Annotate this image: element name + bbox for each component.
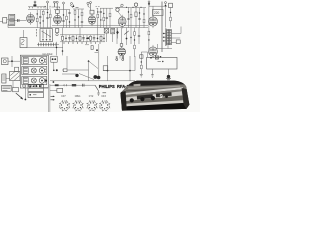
resistor R18 <box>148 27 150 48</box>
grid coil V3 <box>90 10 94 15</box>
scatter components below V3 <box>85 37 98 52</box>
photo right side panel <box>182 88 190 109</box>
tuning capacitor VC <box>10 67 20 80</box>
capacitor C6 column <box>78 9 79 28</box>
band switch element 8 <box>86 35 88 42</box>
capacitor C23 column <box>130 28 131 44</box>
wire pickup line <box>24 30 64 47</box>
photo front panel <box>121 89 185 107</box>
svg-text:CBL1: CBL1 <box>75 96 81 98</box>
band switch element 1 <box>62 35 64 42</box>
terminal gramophone <box>70 3 79 8</box>
capacitor C34 blob <box>97 76 101 80</box>
capacitor C20 <box>127 7 129 27</box>
tube V5 AZ1 envelope <box>149 15 158 28</box>
photo dial window right <box>156 92 172 97</box>
svg-text:220: 220 <box>154 11 160 15</box>
resistor R9 column <box>109 8 111 27</box>
wave switch comb <box>37 43 59 46</box>
tube V2 ECH4 envelope <box>54 13 62 25</box>
photo left corner midtone <box>120 86 134 94</box>
filter block right of mains line <box>51 56 57 62</box>
variable resistor R15 <box>124 28 128 45</box>
wire T2 primary stubs <box>163 33 166 42</box>
wire diagonal <box>79 74 94 80</box>
capacitor blob right <box>167 75 170 78</box>
wire box stub right <box>168 69 170 75</box>
coil row 1 <box>22 56 47 64</box>
resistor R1 column <box>36 10 38 28</box>
wire mains vertical double <box>48 84 50 112</box>
switch arrow <box>16 93 23 99</box>
mains double line <box>161 2 162 53</box>
band switch element 13 <box>103 35 105 42</box>
resistor R2 column <box>42 10 44 28</box>
node top far right <box>165 2 167 28</box>
photo knob 1 <box>130 98 134 102</box>
junction bus dots <box>45 80 47 82</box>
junction dots rails <box>56 47 58 49</box>
band switch element 2 <box>65 35 67 42</box>
power resistor box <box>147 57 177 69</box>
svg-text:CF3: CF3 <box>101 96 106 98</box>
photo top face <box>121 84 187 96</box>
terminal above C4 <box>63 2 65 10</box>
antenna coil L2 <box>9 20 15 25</box>
wire filter down <box>53 62 55 70</box>
wire lower bus long <box>50 80 135 82</box>
resistor R4 column <box>66 10 68 28</box>
coil box bottom compartment <box>23 85 42 88</box>
resistor R6 column <box>81 9 83 28</box>
pickup switch box S1 <box>20 38 27 48</box>
output transformer T2 winding B <box>169 30 171 45</box>
wire bottom left return <box>8 24 24 27</box>
detector diode diamond <box>116 28 119 39</box>
choke top box <box>140 55 143 58</box>
capacitor C21 column <box>138 8 140 28</box>
rail bottom ticks <box>64 42 100 44</box>
photo dial strip <box>123 91 182 102</box>
coil unit frame <box>20 55 48 88</box>
photo top face streak 1 <box>128 86 180 89</box>
resistor R14 column <box>143 8 145 28</box>
winding top right <box>170 8 172 28</box>
resistor R7 column <box>97 8 99 27</box>
capacitor C33 <box>83 84 85 87</box>
wire T2 bottom <box>149 6 172 57</box>
band switch rail bottom <box>60 41 105 43</box>
junction AF <box>88 60 90 62</box>
speaker terminal box <box>176 38 180 44</box>
wire mains rail <box>149 6 167 17</box>
wire x99 vertical <box>98 44 100 77</box>
transformer T2 core <box>164 28 167 46</box>
wire vertical x88 <box>88 60 90 81</box>
terminal pickup <box>87 2 90 7</box>
legend arrows <box>51 96 55 101</box>
resistor R13 column <box>130 8 132 28</box>
field coil box <box>103 66 108 71</box>
resistor R16 chain <box>134 28 136 57</box>
fuse box <box>13 87 19 91</box>
wire rails to bus ties <box>63 28 98 35</box>
scale lamp rect <box>2 74 6 83</box>
capacitor C30 ticks <box>140 75 143 77</box>
antenna coil L1 <box>9 14 15 19</box>
band switch rail top <box>60 34 105 36</box>
resistor R21 <box>63 69 67 72</box>
node top cap V4 <box>116 4 123 17</box>
label box 220V <box>153 10 164 16</box>
capacitor C2 column <box>39 10 41 28</box>
grid stopper box V7 <box>120 28 123 48</box>
band switch element 12 <box>100 35 102 42</box>
socket CBL1 <box>72 96 83 111</box>
ballast resistor box <box>57 88 63 92</box>
mains terminal arrow <box>148 1 150 6</box>
resistor R3 column <box>49 9 51 27</box>
tube V3 EF9 envelope <box>88 14 95 26</box>
wire antenna to V1 <box>0 20 26 22</box>
photo small knob 4 <box>165 95 168 98</box>
capacitor C3 column <box>46 9 48 27</box>
junction left <box>11 60 13 62</box>
plug contact P1 <box>116 56 118 60</box>
junction selector <box>25 99 27 101</box>
photo dial window left <box>137 94 153 99</box>
wire vertical x62 <box>62 42 64 56</box>
capacitor C9 column <box>106 8 108 27</box>
junction dot <box>56 69 58 71</box>
terminal dashes <box>96 7 100 9</box>
node circle top mid <box>134 3 137 6</box>
wire selector vertical <box>24 84 26 99</box>
band switch element 11 <box>97 35 99 42</box>
photo front edge highlight <box>121 87 184 95</box>
terminal above V3 <box>90 2 92 11</box>
plug contact P2 <box>122 56 124 60</box>
choke vertical <box>140 52 142 74</box>
wire T2 secondary leads <box>171 27 181 43</box>
switch contact dashes <box>36 29 38 36</box>
capacitor C32 blob <box>93 75 97 79</box>
socket CY2 <box>86 96 97 111</box>
band switch element 7 <box>82 35 85 42</box>
trimmer stack left <box>55 29 58 36</box>
wire choke top <box>141 52 147 57</box>
wire speaker drops <box>104 56 136 81</box>
wire AVC bus <box>52 25 148 27</box>
photo baseboard light strip <box>123 100 184 107</box>
coupling marks <box>64 84 67 86</box>
dash under title <box>103 92 107 94</box>
resistor R12 <box>135 12 137 17</box>
photo top left bright spot <box>134 84 141 88</box>
coil row 3 <box>22 76 47 84</box>
wire left column <box>8 56 20 67</box>
ground bottom center <box>97 93 100 95</box>
photo knob 2 <box>140 97 144 101</box>
tube V6 EM4 envelope <box>149 45 158 58</box>
wire IF drops <box>106 28 117 44</box>
terminal strip earth <box>52 1 61 8</box>
tuning indicator tube V7 <box>118 48 126 59</box>
capacitor C22 <box>138 28 140 44</box>
capacitor C1 <box>18 19 20 22</box>
resistor R5 column <box>74 9 76 28</box>
mains entry box <box>2 85 12 91</box>
wire box stub left <box>152 69 154 75</box>
terminal strip aerial left <box>28 1 46 8</box>
output transformer T2 winding A <box>167 30 169 45</box>
band switch element 6 <box>79 35 81 42</box>
capacitor C31 blob <box>75 74 78 77</box>
capacitor C5 column <box>68 10 70 28</box>
photo top ridge dark <box>125 79 192 88</box>
oscillator coil L3 <box>56 10 60 15</box>
switch blade right <box>95 85 98 92</box>
band switch element 3 <box>68 35 71 42</box>
terminal above C3 <box>45 1 51 9</box>
band switch element 5 <box>76 35 78 42</box>
switch unit left box <box>2 58 9 65</box>
wire AVC line <box>62 70 89 74</box>
wire heater chain <box>39 85 95 87</box>
wire VC down <box>6 79 13 89</box>
tube V4 EBL1 envelope <box>118 15 126 29</box>
wire vertical x67 <box>66 56 68 69</box>
wire anode bus <box>24 27 148 29</box>
ground main <box>166 79 171 81</box>
voltage selector box <box>28 84 44 91</box>
wire vertical x56 <box>56 42 58 56</box>
svg-text:CY2: CY2 <box>89 96 94 98</box>
photo left side shadow <box>120 91 127 111</box>
socket CF7 <box>59 96 70 111</box>
wire diagonal AF <box>89 61 99 69</box>
coil row 2 <box>22 66 47 74</box>
resistor R23 blob <box>55 84 59 86</box>
antenna terminal box <box>3 18 7 23</box>
trimmer X box <box>150 56 161 59</box>
socket CF3 <box>99 96 110 111</box>
photo knob 3 <box>151 96 155 100</box>
tube V1 EF8 envelope <box>27 12 35 25</box>
capacitor C4 column <box>62 10 64 28</box>
junction filter <box>53 70 55 72</box>
junction dots speaker bus <box>107 70 109 72</box>
IF transformer box1 <box>104 28 108 33</box>
svg-text:9: 9 <box>160 94 163 100</box>
fuse holder box <box>28 93 44 98</box>
IF transformer box2 <box>111 28 115 33</box>
wire ballast <box>50 90 57 92</box>
wire screen bus <box>28 8 49 10</box>
svg-text:CF7: CF7 <box>61 96 66 98</box>
capacitor C8 column <box>100 8 102 27</box>
terminal above V2 <box>56 1 58 10</box>
wire HT rail top <box>126 7 142 8</box>
band switch element 10 <box>93 35 96 42</box>
band switch element 9 <box>90 35 92 42</box>
tuning gang box <box>40 29 52 42</box>
photo top face streak 2 <box>126 88 184 92</box>
photo knob band <box>124 95 183 105</box>
stub ticks left <box>151 75 154 77</box>
capacitor block top right <box>169 3 173 7</box>
resistor R8 column <box>103 8 105 27</box>
resistor R22 <box>72 84 76 86</box>
photo base dark <box>122 103 190 111</box>
band switch element 4 <box>72 35 74 42</box>
